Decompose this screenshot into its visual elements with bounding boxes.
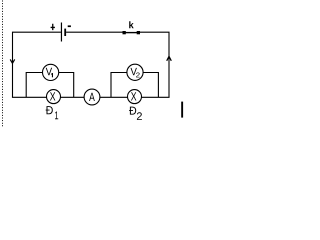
switch bar: [124, 32, 138, 34]
wire: switch to top-right corner + right vertical: [140, 32, 169, 97]
switch left contact: [123, 31, 126, 34]
ammeter A: [84, 89, 100, 105]
text cursor: [181, 102, 183, 118]
wire: bottom main: [12, 96, 170, 98]
lamp D1 (circle with X): [47, 90, 61, 104]
lamp D2 (circle with X): [128, 90, 142, 104]
text-frame dotted border: [2, 1, 4, 128]
battery positive plate (long thin): [61, 23, 62, 42]
switch label k: [129, 21, 134, 28]
battery label -: [68, 25, 71, 27]
wire: top-left segment + left vertical: [13, 32, 61, 97]
label D1: [46, 106, 59, 119]
switch right contact: [137, 31, 140, 34]
battery label +: [51, 24, 55, 30]
voltmeter branch 2 wire rectangle: [111, 73, 158, 98]
voltmeter V2: [127, 64, 143, 80]
current arrow down on left wire: [10, 59, 15, 63]
battery negative plate (short thick): [64, 29, 66, 36]
current arrow up on right wire: [167, 56, 172, 61]
wire: battery to switch: [66, 31, 122, 33]
voltmeter branch 1 wire rectangle: [26, 73, 73, 98]
voltmeter V1: [43, 64, 59, 80]
label D2: [129, 107, 142, 120]
